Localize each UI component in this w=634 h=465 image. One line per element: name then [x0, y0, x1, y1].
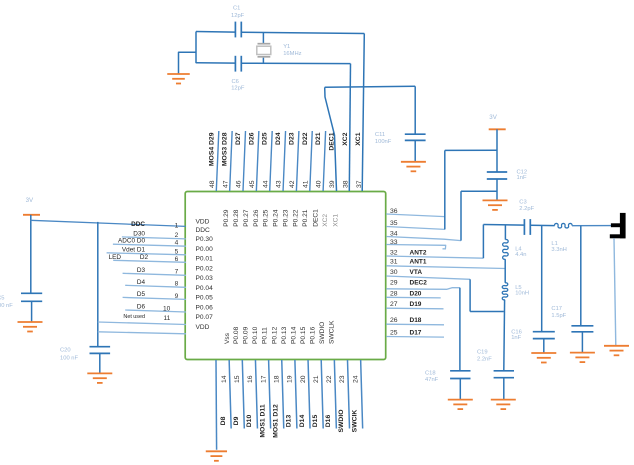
pin 16 wire and label D10 — [246, 360, 257, 429]
pin 33 number — [390, 239, 398, 246]
svg-text:C1: C1 — [233, 6, 240, 12]
wire L4 riser — [504, 225, 506, 240]
pin 4 wire and net ADC0 D0 — [113, 238, 186, 247]
pin 23 wire and label SWDIO — [338, 360, 349, 433]
pin 21 wire and label D15 — [312, 360, 323, 429]
wire C5 to ground — [31, 301, 33, 322]
pin 25 number and net D17 — [390, 330, 422, 337]
svg-text:2: 2 — [175, 232, 179, 239]
svg-text:D14: D14 — [299, 415, 306, 428]
svg-text:46: 46 — [236, 180, 243, 188]
svg-text:D8: D8 — [220, 416, 227, 425]
ground at C20 — [87, 373, 112, 383]
wire riser to 3V node — [445, 149, 497, 151]
svg-text:D13: D13 — [286, 415, 293, 428]
svg-text:DEC1: DEC1 — [313, 209, 320, 227]
wire C17 riser — [580, 226, 582, 326]
svg-text:C11: C11 — [375, 132, 385, 138]
svg-text:40: 40 — [316, 180, 323, 188]
svg-text:4: 4 — [175, 239, 179, 246]
pin 7 wire and net D3 — [123, 267, 186, 276]
svg-text:D2: D2 — [140, 254, 149, 261]
svg-text:100 nF: 100 nF — [60, 356, 79, 362]
svg-text:14: 14 — [221, 375, 228, 383]
svg-text:LED: LED — [109, 254, 122, 261]
pin 13 Vss wire — [215, 360, 218, 450]
svg-text:P0.09: P0.09 — [243, 326, 250, 344]
svg-text:2.2pF: 2.2pF — [519, 206, 534, 212]
wire pin 28 D20 stub — [386, 296, 441, 299]
svg-text:5: 5 — [175, 248, 179, 255]
pin 1 wire and net DDC — [131, 221, 178, 230]
wire 3V to C12 — [496, 129, 498, 172]
ground at crystal caps — [167, 74, 190, 84]
svg-text:12pF: 12pF — [231, 13, 245, 19]
svg-text:D16: D16 — [325, 415, 332, 428]
svg-text:28: 28 — [390, 290, 398, 297]
svg-text:P0.23: P0.23 — [283, 209, 290, 227]
svg-text:2.2nF: 2.2nF — [477, 356, 492, 362]
svg-text:P0.24: P0.24 — [273, 209, 280, 227]
svg-text:D19: D19 — [410, 301, 422, 308]
capacitor C6 value label — [231, 79, 245, 92]
svg-text:C5: C5 — [0, 296, 5, 302]
pin 35 number — [390, 220, 398, 227]
wire pin 30 VTA — [386, 276, 470, 279]
svg-text:D21: D21 — [315, 132, 322, 145]
svg-text:SWDIO: SWDIO — [319, 322, 326, 344]
svg-text:C6: C6 — [232, 79, 239, 85]
pin 29 number and net DEC2 — [390, 280, 427, 287]
pin 8 wire and net D4 — [125, 279, 186, 288]
svg-text:44: 44 — [262, 180, 269, 188]
svg-text:DDC: DDC — [196, 227, 211, 234]
svg-text:XC1: XC1 — [333, 214, 340, 227]
svg-text:D22: D22 — [302, 132, 309, 145]
ground at C17 — [570, 353, 595, 363]
svg-text:15: 15 — [234, 375, 241, 383]
svg-text:D5: D5 — [137, 291, 146, 298]
wire pin 26 D18 stub — [386, 323, 444, 326]
IC U1 body (48-pin QFN) — [185, 192, 386, 360]
pin 34 number — [390, 230, 398, 237]
U1 top pin names P0.29-P0.21 DEC1 XC2 XC1 — [223, 209, 339, 227]
svg-text:MOS1 D11: MOS1 D11 — [259, 404, 266, 437]
wire to C11 — [414, 86, 416, 134]
svg-text:D26: D26 — [248, 132, 255, 145]
svg-text:P0.05: P0.05 — [196, 295, 214, 302]
svg-text:P0.25: P0.25 — [263, 209, 270, 227]
svg-text:16MHz: 16MHz — [283, 51, 301, 57]
svg-text:ADC0 D0: ADC0 D0 — [118, 238, 145, 245]
pin 14 wire and label D8 — [220, 360, 231, 429]
pin 45 wire and label D26 — [248, 131, 259, 191]
pin 17 wire and label MOS1 D11 — [259, 360, 270, 438]
inductor L4 — [503, 240, 509, 260]
svg-text:1nF: 1nF — [511, 335, 521, 341]
wire RF node to C3 — [483, 224, 524, 227]
svg-text:DEC2: DEC2 — [410, 280, 428, 287]
wire pin 36 — [386, 214, 445, 217]
pin 9 wire and net D5 — [123, 291, 186, 300]
svg-text:VDD: VDD — [196, 219, 210, 226]
svg-text:38: 38 — [342, 180, 349, 188]
power 3V bar (right) — [489, 128, 506, 130]
svg-text:D18: D18 — [410, 317, 422, 324]
wire pin 27 D19 stub — [386, 307, 443, 310]
wire C19 to ground — [503, 378, 505, 400]
svg-text:29: 29 — [390, 280, 398, 287]
pin 11 wire and net Net used — [123, 314, 170, 322]
svg-text:P0.16: P0.16 — [309, 326, 316, 344]
svg-text:48: 48 — [209, 180, 216, 188]
svg-text:D10: D10 — [246, 415, 253, 428]
svg-text:Vdet D1: Vdet D1 — [122, 247, 146, 254]
svg-text:P0.26: P0.26 — [253, 209, 260, 227]
inductor L4 value label — [515, 246, 526, 258]
svg-text:25: 25 — [390, 330, 398, 337]
capacitor C20 — [90, 347, 111, 354]
svg-text:42: 42 — [289, 180, 296, 188]
pin 39 wire and label DEC1 — [328, 132, 336, 188]
pin 40 wire and label D21 — [315, 131, 326, 191]
capacitor C11 — [405, 134, 426, 140]
svg-text:P0.27: P0.27 — [243, 209, 250, 227]
pin 41 wire and label D22 — [302, 131, 313, 191]
pin 6 wire and net LED#D2 — [109, 254, 186, 263]
svg-text:SWCIK: SWCIK — [351, 410, 358, 433]
svg-text:P0.14: P0.14 — [290, 326, 297, 344]
svg-text:Net used: Net used — [123, 314, 145, 320]
svg-text:19: 19 — [287, 375, 294, 383]
wire ANT2 riser — [482, 225, 484, 259]
pin 47 wire and label MOS3 D28 — [222, 131, 233, 191]
capacitor C17 value label — [551, 306, 566, 319]
ground at C16 — [531, 353, 556, 363]
svg-text:47nF: 47nF — [425, 377, 439, 383]
pin 44 wire and label D25 — [262, 131, 273, 191]
svg-text:P0.08: P0.08 — [233, 326, 240, 344]
svg-text:D3: D3 — [137, 267, 146, 274]
wire pin 34 — [386, 237, 461, 241]
ground at C18 — [448, 400, 473, 410]
svg-text:3V: 3V — [26, 197, 34, 204]
svg-text:P0.29: P0.29 — [223, 209, 230, 227]
svg-text:P0.00: P0.00 — [196, 246, 214, 253]
svg-text:3V: 3V — [489, 114, 497, 121]
wire pin 11 Net used — [98, 322, 186, 325]
wire C3 to L1 — [530, 224, 554, 226]
wire DEC1 pin 39 riser — [325, 87, 337, 191]
wire pin 34 riser — [460, 191, 462, 240]
wire C11 to ground — [414, 140, 416, 161]
svg-text:D4: D4 — [137, 279, 146, 286]
svg-text:VTA: VTA — [410, 269, 423, 276]
svg-text:27: 27 — [390, 301, 398, 308]
wire C12 to ground — [496, 179, 498, 200]
svg-text:4.4n: 4.4n — [515, 252, 526, 258]
capacitor C19 — [494, 371, 514, 378]
capacitor C11 value label — [375, 132, 392, 145]
pin 24 wire and label SWCIK — [351, 360, 362, 432]
crystal Y1 value label — [283, 44, 301, 57]
wire pin 34 riser to C12 node — [461, 190, 497, 192]
svg-text:P0.22: P0.22 — [292, 209, 299, 227]
wire pin 35 — [386, 227, 445, 230]
svg-text:Y1: Y1 — [283, 44, 290, 50]
svg-text:17: 17 — [260, 375, 267, 383]
wire crystal to XC1 pin 37 — [362, 34, 364, 192]
svg-text:D30: D30 — [133, 230, 145, 237]
svg-text:MOS3 D28: MOS3 D28 — [222, 132, 229, 166]
ground at pin 13 Vss — [206, 451, 227, 461]
pin 22 wire and label D16 — [325, 360, 336, 429]
pin 2 wire and net D30 — [122, 230, 186, 239]
svg-text:3.3nH: 3.3nH — [551, 247, 566, 253]
wire XC1 top run — [196, 32, 364, 34]
wire VTA to L5 node — [470, 311, 504, 313]
pin 31 number and net ANT1 — [390, 259, 427, 266]
svg-text:D17: D17 — [410, 330, 422, 337]
wire C1-C6 junction — [195, 32, 197, 64]
svg-text:1: 1 — [175, 223, 179, 230]
svg-text:C3: C3 — [519, 200, 526, 206]
capacitor C1 value label — [231, 6, 245, 19]
inductor L5 — [502, 283, 508, 300]
wire VDD bus vertical — [97, 222, 99, 347]
svg-text:SWDIO: SWDIO — [338, 409, 345, 432]
wire pin 33 stub — [386, 245, 446, 249]
crystal Y1 — [257, 33, 271, 63]
ground at C12 — [483, 200, 508, 210]
pin 48 wire and label MOS4 D29 — [208, 131, 219, 191]
wire 3V rail to pin 1 — [31, 220, 186, 226]
pin 15 wire and label D9 — [233, 360, 244, 429]
ground at C5 — [18, 322, 43, 332]
capacitor C1 — [235, 22, 241, 38]
svg-text:C17: C17 — [551, 306, 562, 312]
pin 18 wire and label MOS1 D12 — [272, 360, 283, 438]
svg-text:ANT2: ANT2 — [410, 249, 427, 256]
capacitor C20 value label — [60, 347, 79, 361]
svg-text:21: 21 — [313, 375, 320, 383]
svg-text:C19: C19 — [477, 349, 488, 355]
pin 37 wire and label XC1 — [355, 132, 363, 188]
svg-text:D20: D20 — [410, 290, 422, 297]
svg-text:45: 45 — [249, 180, 256, 188]
svg-text:6: 6 — [175, 256, 179, 263]
wire VTA riser — [469, 279, 471, 311]
svg-text:20: 20 — [300, 375, 307, 383]
ground at C19 — [491, 400, 516, 410]
svg-text:XC2: XC2 — [342, 132, 349, 145]
wire pin 31 ANT1 — [386, 266, 505, 269]
svg-text:C20: C20 — [60, 347, 71, 353]
ground at C11 — [401, 162, 426, 172]
svg-text:D23: D23 — [288, 132, 295, 145]
svg-text:ANT1: ANT1 — [410, 259, 427, 266]
svg-text:MOS4 D29: MOS4 D29 — [208, 132, 215, 166]
svg-text:SWCLK: SWCLK — [328, 320, 335, 344]
svg-text:16: 16 — [247, 375, 254, 383]
ground at antenna — [604, 346, 629, 356]
wire pin 12 VDD stub — [98, 332, 186, 334]
svg-text:P0.30: P0.30 — [196, 236, 214, 243]
svg-text:39: 39 — [329, 180, 336, 188]
capacitor C16 value label — [511, 330, 522, 341]
svg-text:XC2: XC2 — [322, 214, 329, 227]
wire antenna to ground — [614, 238, 616, 345]
svg-text:D9: D9 — [233, 416, 240, 425]
wire L4 to L5 (ANT1 node) — [504, 259, 506, 283]
svg-text:XC1: XC1 — [355, 132, 362, 145]
capacitor C5 value label — [0, 296, 13, 309]
wire DEC1 to C11 — [325, 86, 416, 87]
wire L5 to C19 — [503, 300, 506, 371]
inductor L5 value label — [515, 285, 529, 297]
wire 3V to C5 — [30, 215, 32, 293]
antenna E1 — [610, 213, 626, 238]
pin 30 number and net VTA — [390, 269, 422, 276]
wire pin 32 ANT2 — [386, 256, 483, 258]
svg-text:P0.07: P0.07 — [196, 314, 214, 321]
inductor L1 value label — [551, 241, 566, 253]
svg-text:18: 18 — [273, 375, 280, 383]
svg-text:D6: D6 — [137, 304, 146, 311]
capacitor C6 — [235, 56, 241, 72]
pin 28 number and net D20 — [390, 290, 422, 297]
capacitor C3 value label — [519, 200, 534, 212]
wire C20 to ground — [99, 353, 101, 373]
svg-text:10: 10 — [163, 305, 171, 312]
svg-text:D24: D24 — [275, 132, 282, 145]
pin 5 wire and net Vdet D1 — [107, 247, 186, 256]
inductor L1 — [555, 223, 573, 228]
svg-text:MOS1 D12: MOS1 D12 — [272, 404, 279, 438]
svg-text:D27: D27 — [235, 132, 242, 145]
pin 26 number and net D18 — [390, 317, 422, 324]
capacitor C19 value label — [477, 349, 492, 362]
U1 bottom pin names Vss P0.08-P0.16 SWDIO SWCLK — [224, 320, 335, 344]
svg-text:P0.13: P0.13 — [281, 326, 288, 344]
svg-text:P0.01: P0.01 — [196, 256, 214, 263]
svg-text:P0.06: P0.06 — [196, 304, 214, 311]
pin 43 wire and label D24 — [275, 131, 286, 191]
svg-text:26: 26 — [390, 317, 398, 324]
svg-text:P0.03: P0.03 — [196, 275, 214, 282]
pin 20 wire and label D14 — [299, 360, 310, 429]
svg-text:8: 8 — [175, 281, 179, 288]
wire pins 36-35 riser — [444, 150, 446, 229]
svg-text:41: 41 — [302, 180, 309, 188]
U1 left pin names VDD DDC P0.30 P0.00-P0.07 VDD — [196, 219, 214, 331]
svg-text:100 nF: 100 nF — [0, 303, 13, 309]
svg-text:VDD: VDD — [196, 324, 210, 331]
pin 10 wire and net D6 — [125, 304, 186, 313]
wire pin 29 DEC2 — [386, 288, 460, 290]
svg-text:P0.04: P0.04 — [196, 285, 214, 292]
svg-text:43: 43 — [276, 180, 283, 188]
capacitor C12 — [487, 172, 507, 179]
svg-text:P0.28: P0.28 — [233, 209, 240, 227]
wire C16 riser — [541, 225, 543, 331]
pin 46 wire and label D27 — [235, 131, 246, 191]
capacitor C12 value label — [517, 170, 528, 182]
capacitor C18 value label — [425, 370, 439, 383]
svg-text:10nH: 10nH — [515, 291, 529, 297]
svg-text:24: 24 — [352, 375, 359, 383]
svg-text:1.5pF: 1.5pF — [551, 313, 566, 319]
pin 38 wire and label XC2 — [342, 132, 350, 188]
pin 42 wire and label D23 — [288, 131, 299, 191]
wire C18 to ground — [459, 379, 461, 400]
pin 27 number and net D19 — [390, 301, 422, 308]
svg-text:P0.15: P0.15 — [300, 326, 307, 344]
svg-text:22: 22 — [326, 375, 333, 383]
svg-text:11: 11 — [163, 315, 170, 322]
svg-text:9: 9 — [175, 293, 179, 300]
capacitor C18 — [450, 371, 470, 379]
wire junction to ground — [179, 52, 197, 73]
svg-text:P0.11: P0.11 — [262, 327, 269, 344]
wire C17 to ground — [581, 332, 583, 353]
wire XC2 bottom run — [196, 62, 351, 65]
svg-text:D25: D25 — [262, 132, 269, 145]
pin 19 wire and label D13 — [286, 360, 297, 429]
svg-text:P0.21: P0.21 — [302, 209, 309, 227]
svg-text:1nF: 1nF — [517, 175, 527, 181]
wire pin 25 D17 stub — [386, 336, 444, 339]
wire DEC2 riser — [459, 288, 461, 371]
wire crystal to XC2 pin 38 — [349, 64, 350, 191]
capacitor C5 — [21, 293, 42, 301]
svg-text:C18: C18 — [425, 370, 436, 376]
wire C16 to ground — [543, 339, 545, 353]
svg-text:35: 35 — [390, 220, 398, 227]
svg-text:Vss: Vss — [224, 332, 231, 344]
svg-text:100nF: 100nF — [375, 139, 392, 145]
svg-text:P0.12: P0.12 — [271, 326, 278, 344]
pin 32 number and net ANT2 — [390, 249, 427, 256]
capacitor C3 — [524, 219, 530, 235]
pin 36 number — [390, 208, 398, 215]
svg-text:47: 47 — [222, 180, 229, 188]
svg-text:32: 32 — [390, 249, 398, 256]
svg-text:31: 31 — [390, 259, 398, 266]
svg-text:DDC: DDC — [131, 221, 145, 228]
svg-text:12pF: 12pF — [231, 86, 245, 92]
svg-text:D15: D15 — [312, 415, 319, 428]
svg-text:P0.02: P0.02 — [196, 265, 214, 272]
svg-text:7: 7 — [175, 269, 179, 276]
svg-text:23: 23 — [339, 375, 346, 383]
wire L1 to antenna — [572, 225, 613, 227]
power 3V bar (left) — [23, 214, 40, 216]
capacitor C16 — [533, 332, 555, 339]
svg-text:P0.10: P0.10 — [252, 326, 259, 344]
svg-text:30: 30 — [390, 269, 398, 276]
capacitor C17 — [571, 326, 593, 332]
